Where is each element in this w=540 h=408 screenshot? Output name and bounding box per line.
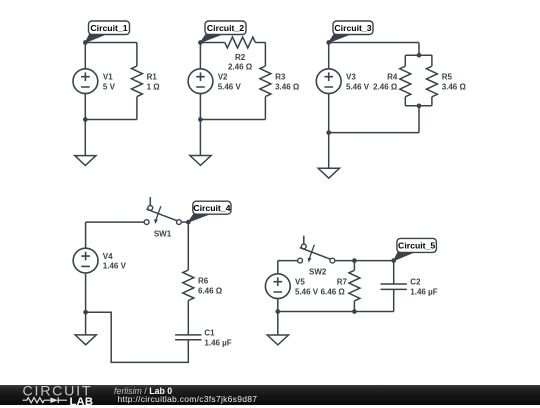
svg-text:2.46 Ω: 2.46 Ω bbox=[228, 63, 253, 72]
svg-text:R4: R4 bbox=[387, 73, 398, 82]
svg-text:1.46 V: 1.46 V bbox=[103, 262, 127, 271]
svg-text:R6: R6 bbox=[198, 277, 209, 286]
svg-text:5.46 V: 5.46 V bbox=[346, 82, 370, 91]
svg-text:SW1: SW1 bbox=[154, 229, 172, 238]
svg-text:Circuit_4: Circuit_4 bbox=[193, 203, 230, 213]
svg-text:V2: V2 bbox=[218, 73, 228, 82]
svg-text:3.46 Ω: 3.46 Ω bbox=[442, 82, 467, 91]
svg-text:3.46 Ω: 3.46 Ω bbox=[275, 82, 300, 91]
svg-text:6.46 Ω: 6.46 Ω bbox=[198, 286, 223, 295]
svg-text:R3: R3 bbox=[275, 73, 286, 82]
svg-text:Circuit_5: Circuit_5 bbox=[398, 241, 435, 251]
svg-text:SW2: SW2 bbox=[309, 268, 327, 277]
svg-text:1 Ω: 1 Ω bbox=[147, 82, 161, 91]
svg-text:Circuit_3: Circuit_3 bbox=[334, 23, 371, 33]
svg-text:C1: C1 bbox=[204, 329, 215, 338]
svg-text:R1: R1 bbox=[147, 73, 158, 82]
svg-text:1.46 µF: 1.46 µF bbox=[204, 338, 231, 347]
svg-text:V4: V4 bbox=[103, 252, 113, 261]
svg-text:V1: V1 bbox=[103, 73, 113, 82]
svg-text:C2: C2 bbox=[410, 278, 421, 287]
svg-text:V3: V3 bbox=[346, 73, 356, 82]
svg-text:6.46 Ω: 6.46 Ω bbox=[321, 287, 346, 296]
svg-text:Circuit_1: Circuit_1 bbox=[90, 23, 127, 33]
svg-text:R2: R2 bbox=[235, 53, 246, 62]
svg-text:Circuit_2: Circuit_2 bbox=[207, 23, 244, 33]
svg-text:R7: R7 bbox=[337, 278, 348, 287]
svg-text:V5: V5 bbox=[295, 278, 305, 287]
svg-text:1.46 µF: 1.46 µF bbox=[410, 287, 437, 296]
svg-text:5.46 V: 5.46 V bbox=[295, 287, 319, 296]
svg-text:5 V: 5 V bbox=[103, 82, 116, 91]
svg-text:R5: R5 bbox=[442, 73, 453, 82]
svg-text:5.46 V: 5.46 V bbox=[218, 82, 242, 91]
svg-text:2.46 Ω: 2.46 Ω bbox=[373, 82, 398, 91]
